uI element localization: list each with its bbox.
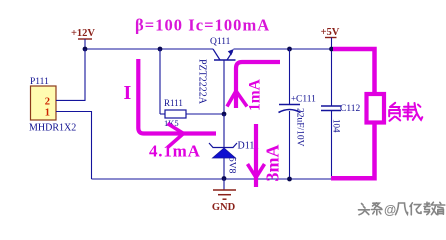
负 <box>389 103 400 121</box>
resistor R111 <box>160 49 224 128</box>
svg-text:β=100 Ic=100mA: β=100 Ic=100mA <box>135 16 270 35</box>
wire bottom ground rail <box>92 178 332 180</box>
svg-text:C111: C111 <box>296 95 316 105</box>
annotation zener current arrow 3mA <box>248 124 265 187</box>
svg-text:GND: GND <box>212 202 236 213</box>
wire pin1 to ground rail <box>56 112 92 180</box>
svg-text:104: 104 <box>332 119 342 133</box>
annotation base current arrow <box>138 59 216 148</box>
watermark 头条@凡亿教育 (drawn as strokes) <box>359 203 383 215</box>
junction at R111 branch <box>158 47 163 52</box>
svg-text:R111: R111 <box>164 98 183 108</box>
凡 <box>396 203 408 215</box>
svg-text:Q111: Q111 <box>210 37 231 47</box>
capacitor C111 <box>279 47 317 182</box>
transistor Q111 <box>196 37 235 114</box>
wire top rail right <box>234 48 332 50</box>
ground <box>212 179 236 214</box>
capacitor C112 <box>321 49 360 179</box>
wire pin2 to +12V rail <box>56 49 85 100</box>
svg-text:@: @ <box>384 203 396 217</box>
power port +5V <box>321 27 340 51</box>
svg-text:1mA: 1mA <box>247 78 264 111</box>
load box <box>367 94 385 123</box>
label 负载 (drawn as strokes) <box>389 103 422 121</box>
svg-text:1: 1 <box>45 108 50 119</box>
svg-text:I: I <box>124 82 132 104</box>
junction at base node <box>222 112 227 117</box>
svg-text:3mA: 3mA <box>263 145 283 182</box>
svg-text:+5V: +5V <box>321 27 340 38</box>
power port +12V <box>71 28 95 49</box>
教 <box>424 202 437 214</box>
annotation emitter current arrow 1mA <box>227 62 280 108</box>
svg-text:PZT2222A: PZT2222A <box>196 59 207 105</box>
load wiring (magenta) <box>333 49 375 92</box>
zener diode D111 <box>209 114 259 179</box>
亿 <box>410 203 421 215</box>
svg-text:4.1mA: 4.1mA <box>149 142 201 161</box>
junction at +12V <box>83 47 88 52</box>
育 <box>436 202 445 214</box>
svg-text:MHDR1X2: MHDR1X2 <box>29 123 76 134</box>
头 <box>359 204 370 215</box>
svg-text:C112: C112 <box>340 104 360 114</box>
svg-text:22uF/10V: 22uF/10V <box>295 108 305 147</box>
wire top rail left <box>85 48 213 50</box>
条 <box>372 203 383 215</box>
svg-text:5V8: 5V8 <box>227 157 237 174</box>
connector P111 <box>29 77 76 134</box>
load wiring bottom (magenta) <box>331 125 375 179</box>
junction at ground node <box>222 176 227 181</box>
载 <box>403 103 422 120</box>
svg-text:2: 2 <box>45 97 50 108</box>
svg-text:+12V: +12V <box>71 28 95 39</box>
